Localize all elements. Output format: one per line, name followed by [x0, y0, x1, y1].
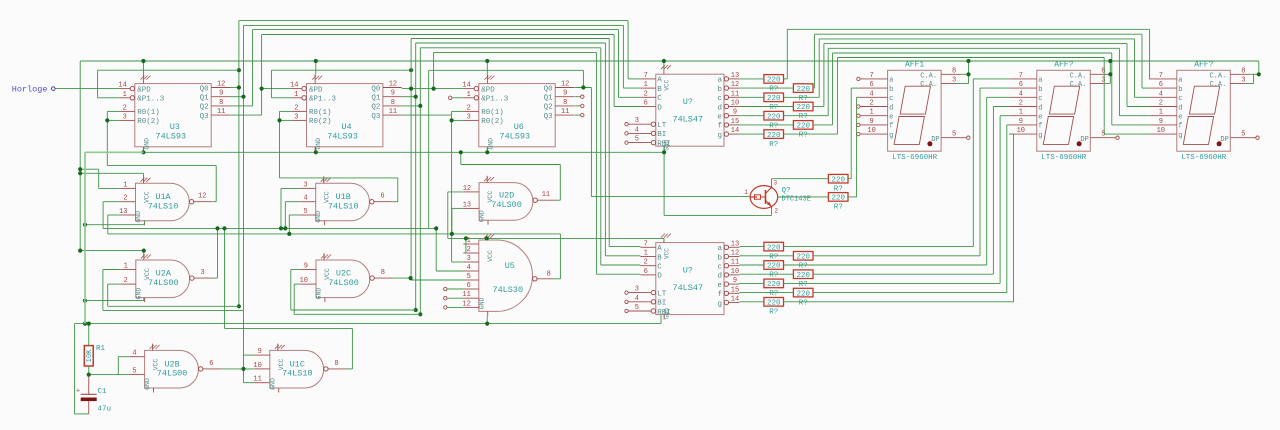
- wire U6 CKA net (line y52.4): [434, 52, 641, 274]
- svg-text:2: 2: [775, 208, 779, 215]
- svg-text:Horloge: Horloge: [12, 84, 48, 94]
- resistor R? 220 (bottom bank row d): [793, 270, 813, 289]
- svg-text:LTS-6960HR: LTS-6960HR: [1041, 154, 1087, 162]
- gate U2C 74LS00: [300, 253, 393, 302]
- svg-text:1: 1: [744, 189, 748, 196]
- wire segment net d (U7 top to AFF3): [739, 44, 1149, 107]
- svg-text:AFF?: AFF?: [1194, 61, 1213, 70]
- svg-text:GND: GND: [478, 297, 485, 309]
- svg-text:f: f: [1038, 123, 1042, 131]
- wire GND rail bottom (y323.6): [75, 315, 661, 346]
- svg-text:R?: R?: [834, 204, 843, 212]
- svg-text:3: 3: [294, 113, 298, 121]
- svg-text:2: 2: [644, 259, 648, 267]
- svg-text:GND: GND: [487, 138, 494, 150]
- svg-text:b: b: [1038, 86, 1042, 94]
- display AFF3 LTS-6960HR: [1149, 61, 1259, 163]
- svg-text:LTS-6960HR: LTS-6960HR: [892, 154, 938, 162]
- svg-text:74LS93: 74LS93: [155, 131, 186, 141]
- svg-text:R0(2): R0(2): [309, 118, 332, 126]
- svg-text:f: f: [889, 123, 893, 131]
- svg-text:Q1: Q1: [371, 95, 381, 103]
- resistor R? 220 (bottom bank row b): [793, 252, 813, 271]
- svg-text:9: 9: [1019, 118, 1023, 126]
- svg-text:9: 9: [304, 263, 308, 271]
- svg-text:GND: GND: [315, 211, 322, 223]
- svg-text:13: 13: [119, 208, 127, 216]
- svg-text:B: B: [657, 86, 662, 94]
- svg-text:10: 10: [731, 100, 739, 108]
- wire U2C input10 to rail y314.3: [294, 284, 420, 314]
- svg-text:9: 9: [258, 348, 262, 356]
- svg-text:d: d: [889, 104, 893, 112]
- svg-text:9: 9: [733, 109, 737, 117]
- svg-text:c: c: [1038, 95, 1042, 103]
- svg-text:D: D: [657, 104, 662, 112]
- wire U4 Q0 net (line y38.5): [402, 39, 641, 281]
- resistor R? 220 (top bank row d): [793, 102, 813, 121]
- svg-text:3: 3: [303, 181, 307, 189]
- wire segment net b (U7 top to AFF3): [739, 34, 1149, 88]
- svg-text:220: 220: [831, 195, 845, 203]
- svg-text:C.A.: C.A.: [920, 72, 937, 80]
- unconnected U5 inputs: [444, 287, 464, 309]
- svg-text:12: 12: [463, 185, 471, 193]
- svg-text:d: d: [717, 273, 722, 281]
- svg-text:R0(2): R0(2): [481, 118, 504, 126]
- svg-text:74LS00: 74LS00: [328, 278, 359, 288]
- svg-text:11: 11: [253, 376, 261, 384]
- wire U2D pin12 drop: [448, 192, 464, 239]
- svg-text:4: 4: [635, 295, 639, 303]
- svg-text:74LS47: 74LS47: [672, 283, 703, 293]
- svg-text:f: f: [717, 291, 722, 299]
- svg-text:Q2: Q2: [200, 104, 209, 112]
- svg-text:6: 6: [644, 100, 648, 108]
- svg-text:1: 1: [644, 81, 648, 89]
- svg-text:6: 6: [869, 81, 873, 89]
- svg-text:R?: R?: [769, 141, 778, 149]
- wire U6 Q2 open: [574, 105, 580, 107]
- svg-text:6: 6: [209, 360, 213, 368]
- svg-text:3: 3: [123, 113, 127, 121]
- gate U2D 74LS00: [463, 176, 556, 225]
- svg-text:DP: DP: [1080, 136, 1088, 144]
- svg-text:c: c: [717, 264, 722, 272]
- wire U2B output to U1C: [221, 355, 254, 383]
- svg-text:R0(1): R0(1): [309, 109, 332, 117]
- svg-text:13: 13: [731, 72, 739, 80]
- svg-text:f: f: [1178, 123, 1182, 131]
- svg-text:e: e: [889, 114, 893, 122]
- svg-text:VCC: VCC: [487, 250, 494, 262]
- wire VCC rail: [80, 59, 1261, 84]
- svg-text:d: d: [717, 104, 722, 112]
- svg-text:12: 12: [198, 193, 206, 201]
- resistor R? 220 (bottom bank row e): [764, 279, 784, 298]
- wire U3 Q0-CKB loop: [98, 70, 239, 98]
- svg-text:3: 3: [774, 180, 778, 187]
- svg-text:C: C: [657, 264, 662, 272]
- wire U2D output to rail y152.3: [459, 150, 561, 200]
- wire Horloge to U3 CKA: [55, 88, 119, 90]
- wire U3 Q1 net (line y25.4): [230, 25, 640, 382]
- svg-text:220: 220: [831, 176, 845, 184]
- wire U3 Q3 net (line y34.5): [230, 35, 640, 116]
- svg-text:2: 2: [1159, 100, 1163, 108]
- svg-text:BI: BI: [657, 131, 666, 139]
- net label Horloge: [12, 84, 55, 94]
- svg-text:g: g: [1038, 132, 1042, 140]
- svg-text:d: d: [1178, 104, 1182, 112]
- svg-text:14: 14: [462, 82, 470, 90]
- svg-text:5: 5: [635, 304, 639, 312]
- svg-text:12: 12: [389, 81, 397, 89]
- svg-text:5: 5: [303, 208, 307, 216]
- svg-text:U5: U5: [505, 261, 515, 271]
- svg-text:Q?: Q?: [782, 187, 791, 195]
- svg-text:7: 7: [644, 72, 648, 80]
- svg-text:1: 1: [123, 91, 127, 99]
- svg-text:VCC: VCC: [663, 79, 670, 90]
- svg-text:GND: GND: [135, 288, 142, 300]
- wire segment net a (U7 top to AFF3): [739, 29, 1149, 79]
- svg-text:C.A.: C.A.: [1209, 72, 1226, 80]
- svg-text:8: 8: [547, 271, 551, 279]
- svg-text:a: a: [717, 77, 722, 85]
- svg-text:1: 1: [124, 263, 128, 271]
- svg-text:11: 11: [389, 108, 397, 116]
- svg-text:4: 4: [1159, 90, 1163, 98]
- svg-text:12: 12: [561, 81, 569, 89]
- svg-text:74LS10: 74LS10: [282, 369, 313, 379]
- svg-text:b: b: [717, 86, 722, 94]
- svg-text:9: 9: [391, 90, 395, 98]
- svg-text:3: 3: [635, 286, 639, 294]
- svg-text:9: 9: [563, 90, 567, 98]
- svg-text:Q1: Q1: [544, 95, 554, 103]
- svg-text:e: e: [717, 282, 722, 290]
- svg-text:220: 220: [767, 244, 781, 252]
- resistor R? 220 (top bank row f): [793, 121, 813, 140]
- svg-text:74LS00: 74LS00: [491, 200, 522, 210]
- wire transistor collector to AFF1 b: [772, 88, 861, 185]
- svg-text:U?: U?: [683, 97, 693, 107]
- svg-text:47u: 47u: [98, 406, 112, 414]
- svg-text:LTS-6960HR: LTS-6960HR: [1181, 154, 1227, 162]
- svg-text:e: e: [717, 114, 722, 122]
- svg-text:3: 3: [200, 269, 204, 277]
- wire U2D pin13 drop: [450, 208, 464, 236]
- svg-text:15: 15: [731, 118, 739, 126]
- svg-text:GND: GND: [479, 210, 486, 222]
- svg-text:Q3: Q3: [544, 113, 554, 121]
- svg-text:LT: LT: [657, 290, 667, 298]
- svg-text:R0(1): R0(1): [481, 109, 504, 117]
- wire U6 R0 bracket to U5 pin3: [450, 111, 464, 262]
- svg-text:C.A.: C.A.: [920, 81, 937, 89]
- svg-text:GND: GND: [144, 378, 151, 390]
- svg-text:2: 2: [124, 277, 128, 285]
- wire segment net f (U7 bottom to AFF2): [739, 125, 1009, 293]
- IC U4 74LS93: [290, 74, 402, 152]
- svg-text:1: 1: [1019, 109, 1023, 117]
- wire segment net g (U7 bottom to AFF2): [739, 134, 1013, 302]
- svg-text:3: 3: [1101, 77, 1105, 85]
- svg-text:1: 1: [1159, 109, 1163, 117]
- svg-text:Q2: Q2: [544, 104, 553, 112]
- svg-text:8: 8: [334, 360, 338, 368]
- svg-text:220: 220: [767, 300, 781, 308]
- svg-text:7: 7: [869, 72, 873, 80]
- IC U3 74LS93: [118, 74, 230, 152]
- svg-text:12: 12: [462, 300, 470, 308]
- svg-text:7: 7: [1159, 72, 1163, 80]
- wire U3 Q2 net (line y29.6): [230, 30, 640, 106]
- gate U2A 74LS00: [120, 253, 212, 302]
- svg-text:8: 8: [1241, 67, 1245, 75]
- svg-text:4: 4: [635, 126, 639, 134]
- display AFF1 LTS-6960HR: [860, 61, 970, 163]
- svg-text:3: 3: [635, 117, 639, 125]
- svg-text:1: 1: [123, 181, 127, 189]
- svg-text:5: 5: [1101, 131, 1105, 139]
- svg-text:U?: U?: [683, 266, 693, 276]
- svg-text:6: 6: [644, 268, 648, 276]
- svg-text:DP: DP: [931, 136, 939, 144]
- wire segment net g (U7 top to AFF3): [739, 58, 1149, 135]
- svg-text:a: a: [889, 77, 893, 85]
- resistor R? 220 (top bank row c): [764, 93, 784, 112]
- svg-text:C.A.: C.A.: [1069, 72, 1086, 80]
- wire U4 Q1 net (line y43.0): [402, 43, 641, 312]
- resistor R? 220 (top bank row e): [764, 111, 784, 130]
- svg-text:g: g: [717, 132, 722, 140]
- svg-text:e: e: [1038, 114, 1042, 122]
- wire GND bus (pale): [85, 152, 144, 323]
- wire U1A input2 to rail y228.4: [103, 202, 436, 229]
- wire U1A GND elbow: [83, 221, 144, 326]
- wire U5 pin5 from U2C output: [411, 278, 464, 280]
- svg-text:R?: R?: [799, 299, 808, 307]
- wire segment net c (U7 bottom to AFF2): [739, 97, 1009, 265]
- svg-text:220: 220: [796, 254, 810, 262]
- svg-text:5: 5: [467, 273, 471, 281]
- svg-text:11: 11: [561, 108, 569, 116]
- wire U4 Q0-CKB loop: [271, 68, 413, 98]
- svg-text:c: c: [889, 95, 893, 103]
- svg-text:14: 14: [290, 82, 298, 90]
- svg-text:2: 2: [467, 246, 471, 254]
- wire R1-C1 junction to U2B: [87, 357, 130, 377]
- svg-text:8: 8: [1101, 67, 1105, 75]
- svg-text:g: g: [1178, 132, 1182, 140]
- svg-text:220: 220: [767, 281, 781, 289]
- IC U6 74LS93: [462, 74, 574, 152]
- svg-text:4: 4: [869, 90, 873, 98]
- svg-text:74LS10: 74LS10: [328, 202, 359, 212]
- gate U1C 74LS10: [253, 344, 346, 393]
- svg-text:74LS10: 74LS10: [148, 202, 179, 212]
- svg-text:+: +: [76, 388, 80, 396]
- svg-text:10: 10: [867, 127, 875, 135]
- svg-text:D: D: [657, 273, 662, 281]
- resistor R? 220 (collector to AFF1 b): [828, 174, 848, 193]
- svg-text:14: 14: [731, 127, 739, 135]
- wire U4 Q3 to U6 R0: [402, 114, 452, 116]
- svg-text:10: 10: [1157, 127, 1165, 135]
- resistor R1 10K: [84, 345, 105, 366]
- svg-text:VCC: VCC: [663, 248, 670, 259]
- svg-text:e: e: [1178, 114, 1182, 122]
- resistor R? 220 (bottom bank row c): [764, 261, 784, 280]
- svg-text:7: 7: [644, 240, 648, 248]
- wire VCC rail U5/U7b (y238.4): [448, 236, 664, 253]
- svg-text:1: 1: [294, 91, 298, 99]
- wire U6 Q1 open: [574, 96, 580, 98]
- svg-text:R?: R?: [769, 309, 778, 317]
- svg-text:b: b: [889, 86, 893, 94]
- svg-text:a: a: [717, 245, 722, 253]
- wire U3 Q0 net (line y20.6): [230, 21, 640, 309]
- svg-text:3: 3: [467, 255, 471, 263]
- wire segment net d (U7 bottom to AFF2): [739, 107, 1009, 275]
- wire GND rail (counters): [141, 146, 771, 215]
- svg-text:a: a: [1178, 77, 1182, 85]
- wire U6 Q0 net: [429, 70, 750, 228]
- svg-text:GND: GND: [269, 378, 276, 390]
- resistor R? 220 (top bank row g): [764, 130, 784, 149]
- svg-text:B: B: [657, 254, 662, 262]
- svg-text:220: 220: [767, 113, 781, 121]
- svg-text:g: g: [717, 300, 722, 308]
- svg-text:220: 220: [767, 132, 781, 140]
- svg-text:R0(2): R0(2): [137, 118, 160, 126]
- wire transistor second resistor to AFF1 c: [778, 97, 860, 197]
- transistor Q? DTC143E: [744, 180, 811, 215]
- svg-text:&P1..3: &P1..3: [481, 96, 509, 104]
- wire segment net e (U7 top to AFF3): [739, 48, 1149, 115]
- wire U1A input13 to rail y233.9 (U5 output net): [108, 215, 561, 279]
- IC U7 74LS47 (bottom decoder): [625, 234, 740, 320]
- svg-text:&P1..3: &P1..3: [137, 96, 165, 104]
- svg-text:c: c: [717, 95, 722, 103]
- svg-text:15: 15: [731, 286, 739, 294]
- wire U4 Q2 net (line y47.8): [402, 48, 641, 317]
- svg-text:220: 220: [767, 263, 781, 271]
- svg-text:8: 8: [381, 269, 385, 277]
- svg-text:GND: GND: [316, 288, 323, 300]
- svg-text:9: 9: [869, 118, 873, 126]
- svg-text:12: 12: [731, 250, 739, 258]
- svg-text:8: 8: [219, 99, 223, 107]
- svg-text:C: C: [657, 95, 662, 103]
- svg-text:1: 1: [467, 91, 471, 99]
- resistor R? 220 (bottom bank row a): [764, 242, 784, 261]
- svg-text:Q3: Q3: [200, 113, 210, 121]
- svg-text:74LS30: 74LS30: [492, 285, 523, 295]
- svg-text:1: 1: [869, 109, 873, 117]
- gate U1A 74LS10: [119, 176, 212, 225]
- svg-text:AFF?: AFF?: [1054, 61, 1073, 70]
- svg-text:C1: C1: [98, 388, 108, 396]
- svg-text:5: 5: [1241, 131, 1245, 139]
- svg-text:1: 1: [644, 250, 648, 258]
- svg-text:Q0: Q0: [200, 85, 210, 93]
- svg-text:&PD: &PD: [481, 86, 495, 94]
- gate U1B 74LS10: [300, 176, 392, 225]
- svg-text:Q3: Q3: [371, 113, 381, 121]
- svg-text:3: 3: [952, 77, 956, 85]
- svg-text:5: 5: [635, 136, 639, 144]
- svg-text:74LS93: 74LS93: [327, 131, 358, 141]
- svg-text:A: A: [657, 245, 662, 253]
- svg-text:10: 10: [731, 268, 739, 276]
- wire U1C output loop (y328.4): [222, 226, 352, 369]
- resistor R? 220 (bottom bank row g): [764, 298, 784, 317]
- svg-text:220: 220: [767, 77, 781, 85]
- svg-text:10K: 10K: [86, 349, 94, 362]
- wire segment net c (U7 top to AFF3): [739, 39, 1149, 97]
- gate U2B 74LS00: [129, 344, 221, 393]
- wire U5 pin4 from rail y228.4: [434, 226, 463, 271]
- svg-text:2: 2: [467, 104, 471, 112]
- svg-text:GND: GND: [135, 211, 142, 223]
- svg-text:14: 14: [731, 296, 739, 304]
- svg-text:2: 2: [123, 104, 127, 112]
- svg-text:3: 3: [1241, 77, 1245, 85]
- svg-text:R1: R1: [96, 345, 106, 353]
- wire C1 bottom loop: [75, 324, 89, 414]
- svg-text:GND: GND: [143, 138, 150, 150]
- svg-text:d: d: [1038, 104, 1042, 112]
- svg-text:LT: LT: [657, 122, 667, 130]
- resistor R? 220 (bottom bank row f): [793, 288, 813, 307]
- svg-text:10: 10: [253, 362, 261, 370]
- wire segment net f (U7 top to AFF3): [739, 53, 1149, 125]
- svg-text:5: 5: [132, 367, 136, 375]
- svg-text:g: g: [889, 132, 893, 140]
- wire U2A GND elbow: [85, 298, 144, 301]
- svg-text:11: 11: [217, 108, 225, 116]
- svg-text:&PD: &PD: [309, 86, 323, 94]
- gate U5 74LS30: [462, 235, 553, 316]
- svg-text:9: 9: [1159, 118, 1163, 126]
- svg-text:74LS47: 74LS47: [672, 115, 703, 125]
- svg-text:4: 4: [303, 195, 307, 203]
- svg-text:R?: R?: [799, 132, 808, 140]
- svg-text:C.A.: C.A.: [1069, 81, 1086, 89]
- wire U2C input9 to rail y310: [291, 270, 416, 311]
- svg-text:4: 4: [467, 264, 471, 272]
- svg-text:6: 6: [1019, 81, 1023, 89]
- svg-text:8: 8: [391, 99, 395, 107]
- svg-text:2: 2: [869, 100, 873, 108]
- svg-text:Q2: Q2: [371, 104, 380, 112]
- svg-text:&PD: &PD: [137, 86, 151, 94]
- svg-text:&P1..3: &P1..3: [309, 96, 337, 104]
- svg-text:9: 9: [219, 90, 223, 98]
- wire U2A output riser: [213, 226, 220, 278]
- svg-text:74LS93: 74LS93: [499, 131, 530, 141]
- svg-text:220: 220: [796, 123, 810, 131]
- svg-text:6: 6: [467, 282, 471, 290]
- svg-text:13: 13: [463, 201, 471, 209]
- IC U7 74LS47 (top decoder): [625, 65, 740, 151]
- svg-text:220: 220: [796, 86, 810, 94]
- resistor R? 220 (top bank row b): [793, 84, 813, 103]
- svg-text:2: 2: [123, 195, 127, 203]
